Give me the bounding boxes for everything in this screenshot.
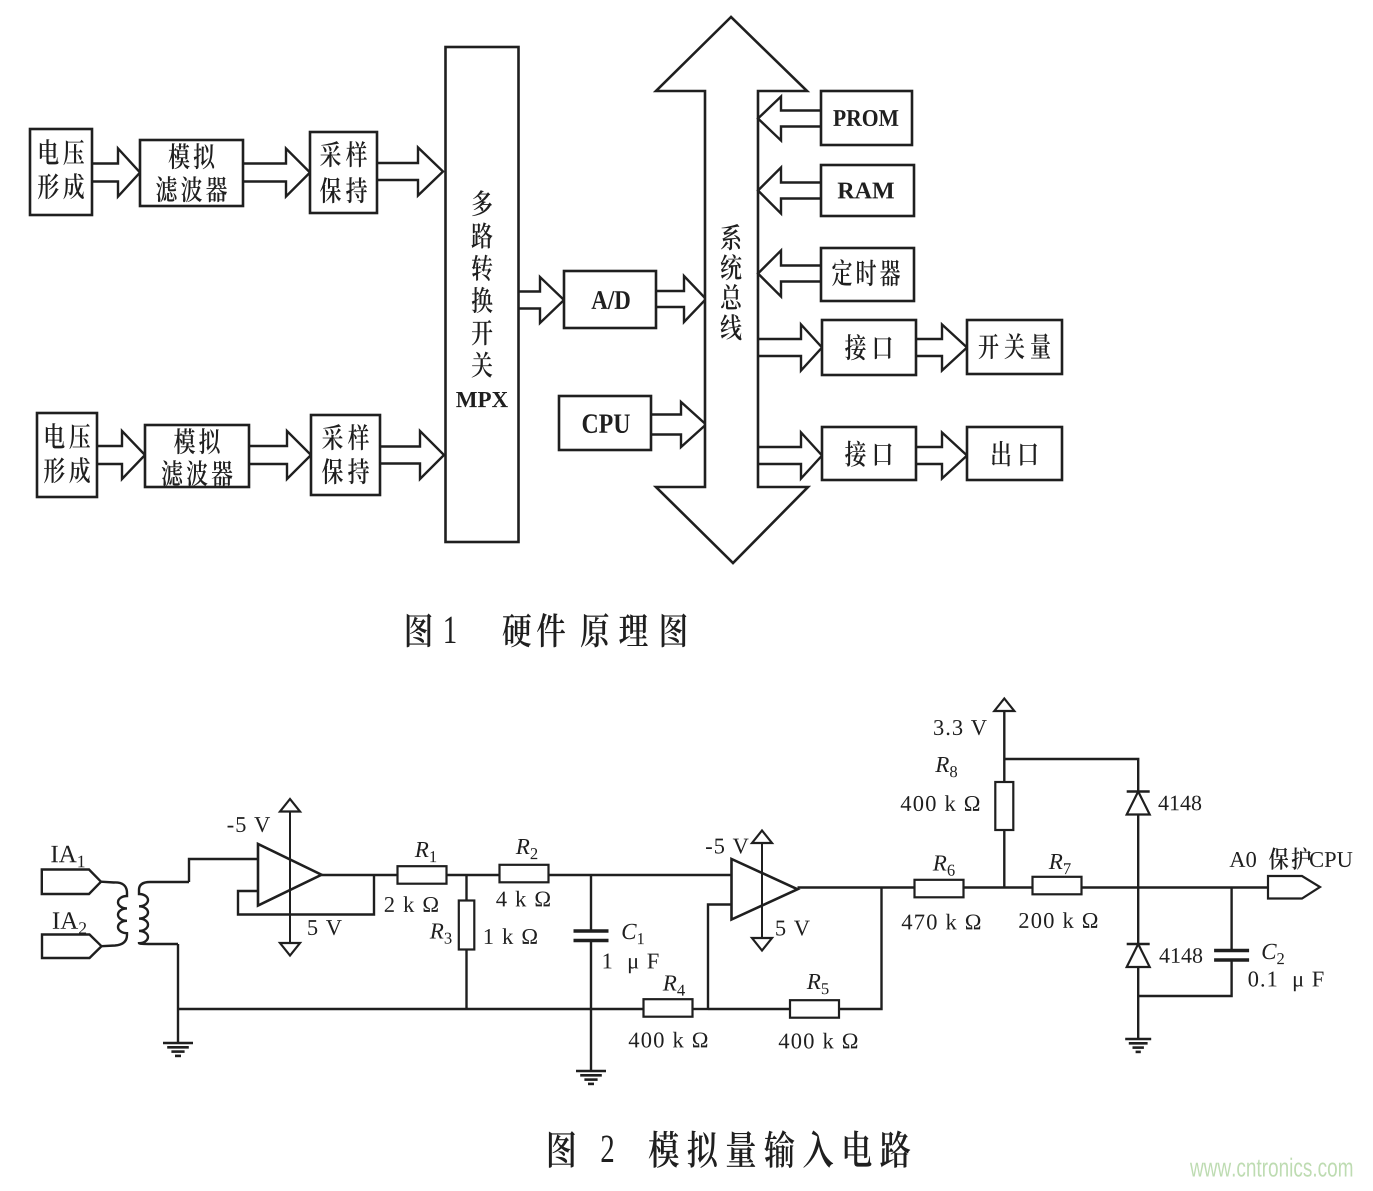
wire R7→output connector (1081, 886, 1268, 888)
block arrow 定时器→bus (758, 251, 821, 297)
ground symbol (C1) (576, 1071, 606, 1084)
system bus double arrow 系统总线 (656, 17, 808, 563)
label 400 kΩ (R5) (779, 1033, 858, 1049)
block arrow PROM→bus (758, 97, 821, 141)
power down arrow U1 (280, 943, 300, 956)
wire node A→R5 (708, 1008, 790, 1010)
block arrow 电压形成→模拟滤波器 (91, 149, 140, 197)
capacitor C1 (574, 931, 609, 941)
label 470 kΩ (902, 914, 981, 930)
block arrow bus→接口 (row2) (758, 433, 822, 479)
wire C1→ground (590, 941, 592, 1071)
resistor R6 (915, 880, 964, 898)
resistor R2 (500, 865, 549, 883)
label R4 (663, 975, 685, 995)
wire secondary bottom→ground rail (177, 944, 179, 1009)
label R1 (415, 842, 437, 862)
block arrow 模拟滤波器→采样保持 (242, 149, 310, 197)
op-amp U2 (732, 859, 798, 920)
power down arrow U2 (752, 938, 772, 951)
label 1 μF (604, 954, 659, 974)
wire U1 feedback (238, 875, 374, 915)
wire 3.3V branch→diode D1 (1004, 759, 1138, 792)
label 4148 (D2) (1159, 948, 1202, 963)
connector IA1 (42, 870, 101, 895)
wire main→diode D2 (1137, 888, 1139, 945)
transformer T1 secondary winding (139, 882, 189, 944)
op-amp U2 power line (761, 843, 763, 938)
power up arrow 3.3V (994, 699, 1014, 712)
label R8 (935, 757, 957, 777)
box 采样保持 (top) (310, 132, 377, 213)
block arrow bus→接口 (row1) (758, 325, 822, 371)
label 5 V (U1) (308, 920, 342, 935)
block arrow 采样保持→MPX (376, 148, 443, 196)
wire R4→node A (693, 1008, 709, 1010)
resistor R7 (1033, 877, 1082, 895)
label 200 kΩ (1019, 912, 1097, 928)
wire C2→junction (1138, 960, 1231, 997)
wire C1 junction down (590, 875, 592, 931)
box A/D (564, 271, 656, 328)
ground symbol (diode) (1125, 1039, 1151, 1052)
label 4 kΩ (496, 891, 550, 907)
label 3.3 V (934, 720, 987, 735)
diode D1 4148 (1127, 792, 1150, 815)
wire R1→R2 (447, 874, 500, 876)
resistor R4 (644, 999, 693, 1017)
resistor R1 (398, 866, 447, 884)
block arrow 接口→出口 (916, 433, 967, 479)
wire R2→op-amp U2 +input (549, 874, 732, 876)
resistor R3 (459, 901, 475, 950)
node R3 junction / wire down (465, 875, 467, 901)
power up arrow U2 (752, 831, 772, 844)
box 定时器 (821, 248, 914, 301)
block arrow 电压形成→模拟滤波器 (row2) (96, 431, 145, 479)
wire R3→bottom rail (465, 950, 467, 1010)
box 开关量 (967, 320, 1062, 374)
block arrow 采样保持→MPX (row2) (379, 431, 444, 479)
box 模拟滤波器 (top) (140, 140, 243, 206)
watermark www.cntronics.com (1190, 1158, 1352, 1177)
wire R6→R7 (964, 886, 1034, 888)
wire U2 output→R6 (798, 886, 915, 888)
block arrow CPU→系统总线 (650, 402, 706, 447)
wire R5→output line (840, 888, 882, 1010)
wire R8→3.3V arrow (1003, 711, 1005, 782)
block arrow MPX→A/D (518, 277, 565, 323)
label C2 (1262, 944, 1283, 964)
label 4148 (D1) (1158, 796, 1201, 811)
diode D2 4148 (1127, 944, 1150, 967)
bottom rail wire (178, 1008, 644, 1010)
wire C2 junction down (1230, 888, 1232, 952)
label 400 kΩ (R8) (901, 795, 980, 811)
box RAM (821, 165, 914, 216)
label R6 (933, 855, 955, 875)
label -5 V (U1) (228, 817, 271, 832)
block arrow A/D→系统总线 (655, 276, 706, 322)
wire U1 output→R1 (322, 874, 398, 876)
label R5 (807, 974, 829, 994)
capacitor C2 (1214, 951, 1249, 961)
op-amp U1 power line (289, 810, 291, 943)
label 400 kΩ (R4) (629, 1032, 708, 1048)
block arrow 接口→开关量 (916, 325, 967, 371)
label -5 V (U2) (706, 839, 749, 854)
resistor R5 (790, 1000, 839, 1018)
label R2 (516, 839, 538, 859)
label R3 (430, 923, 452, 943)
block arrow RAM→bus (758, 168, 821, 214)
box 多路转换开关 MPX (446, 47, 519, 542)
label A0 保护CPU (1230, 847, 1353, 870)
wire D1→main line (1137, 815, 1139, 888)
box 出口 (967, 427, 1062, 480)
label R7 (1049, 854, 1071, 874)
op-amp U1 (258, 844, 322, 906)
label 5 V (U2) (776, 921, 810, 936)
caption 图2 模拟量输入电路 (549, 1130, 910, 1168)
box 接口 (row2) (822, 427, 916, 480)
power +up arrow U1 (280, 799, 300, 812)
label 2 kΩ (385, 896, 438, 912)
label IA2 (53, 912, 86, 934)
ground symbol (transformer) (163, 1043, 193, 1056)
wire secondary top→op-amp U1 +input (189, 859, 258, 882)
label 1 kΩ (485, 928, 537, 944)
box 接口 (row1) (822, 320, 916, 375)
connector IA2 (42, 935, 102, 959)
connector A0 output (1268, 876, 1320, 899)
resistor R8 (995, 782, 1013, 830)
label 0.1 μF (1249, 971, 1324, 991)
transformer T1 primary winding (with IA1/IA2 leads) (101, 882, 127, 947)
box 电压形成 (bottom-left) (37, 413, 97, 497)
wire U2 feedback node A (708, 905, 732, 1010)
box 模拟滤波器 (row2) (145, 425, 249, 487)
box 采样保持 (row2) (311, 415, 380, 495)
wire R8 column (1003, 830, 1005, 888)
box 电压形成 (top-left) (30, 129, 92, 215)
box PROM (821, 91, 912, 145)
caption 图1 硬件原理图 (407, 613, 687, 647)
block arrow 模拟滤波器→采样保持 (row2) (248, 431, 311, 479)
wire D2→ground (1137, 967, 1139, 1039)
box CPU (559, 396, 651, 450)
label IA1 (51, 846, 84, 868)
label C1 (622, 924, 643, 944)
ground rail (bottom) with stub (177, 1009, 179, 1043)
